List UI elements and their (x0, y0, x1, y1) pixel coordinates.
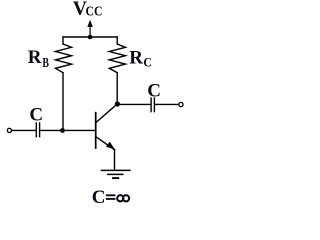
svg-text:R: R (129, 48, 143, 69)
svg-text:C: C (147, 80, 161, 101)
svg-text:B: B (42, 56, 49, 71)
svg-text:R: R (28, 47, 42, 68)
svg-text:C: C (143, 54, 152, 69)
svg-text:C: C (29, 104, 43, 125)
svg-text:C: C (92, 187, 106, 208)
svg-text:CC: CC (86, 5, 103, 20)
